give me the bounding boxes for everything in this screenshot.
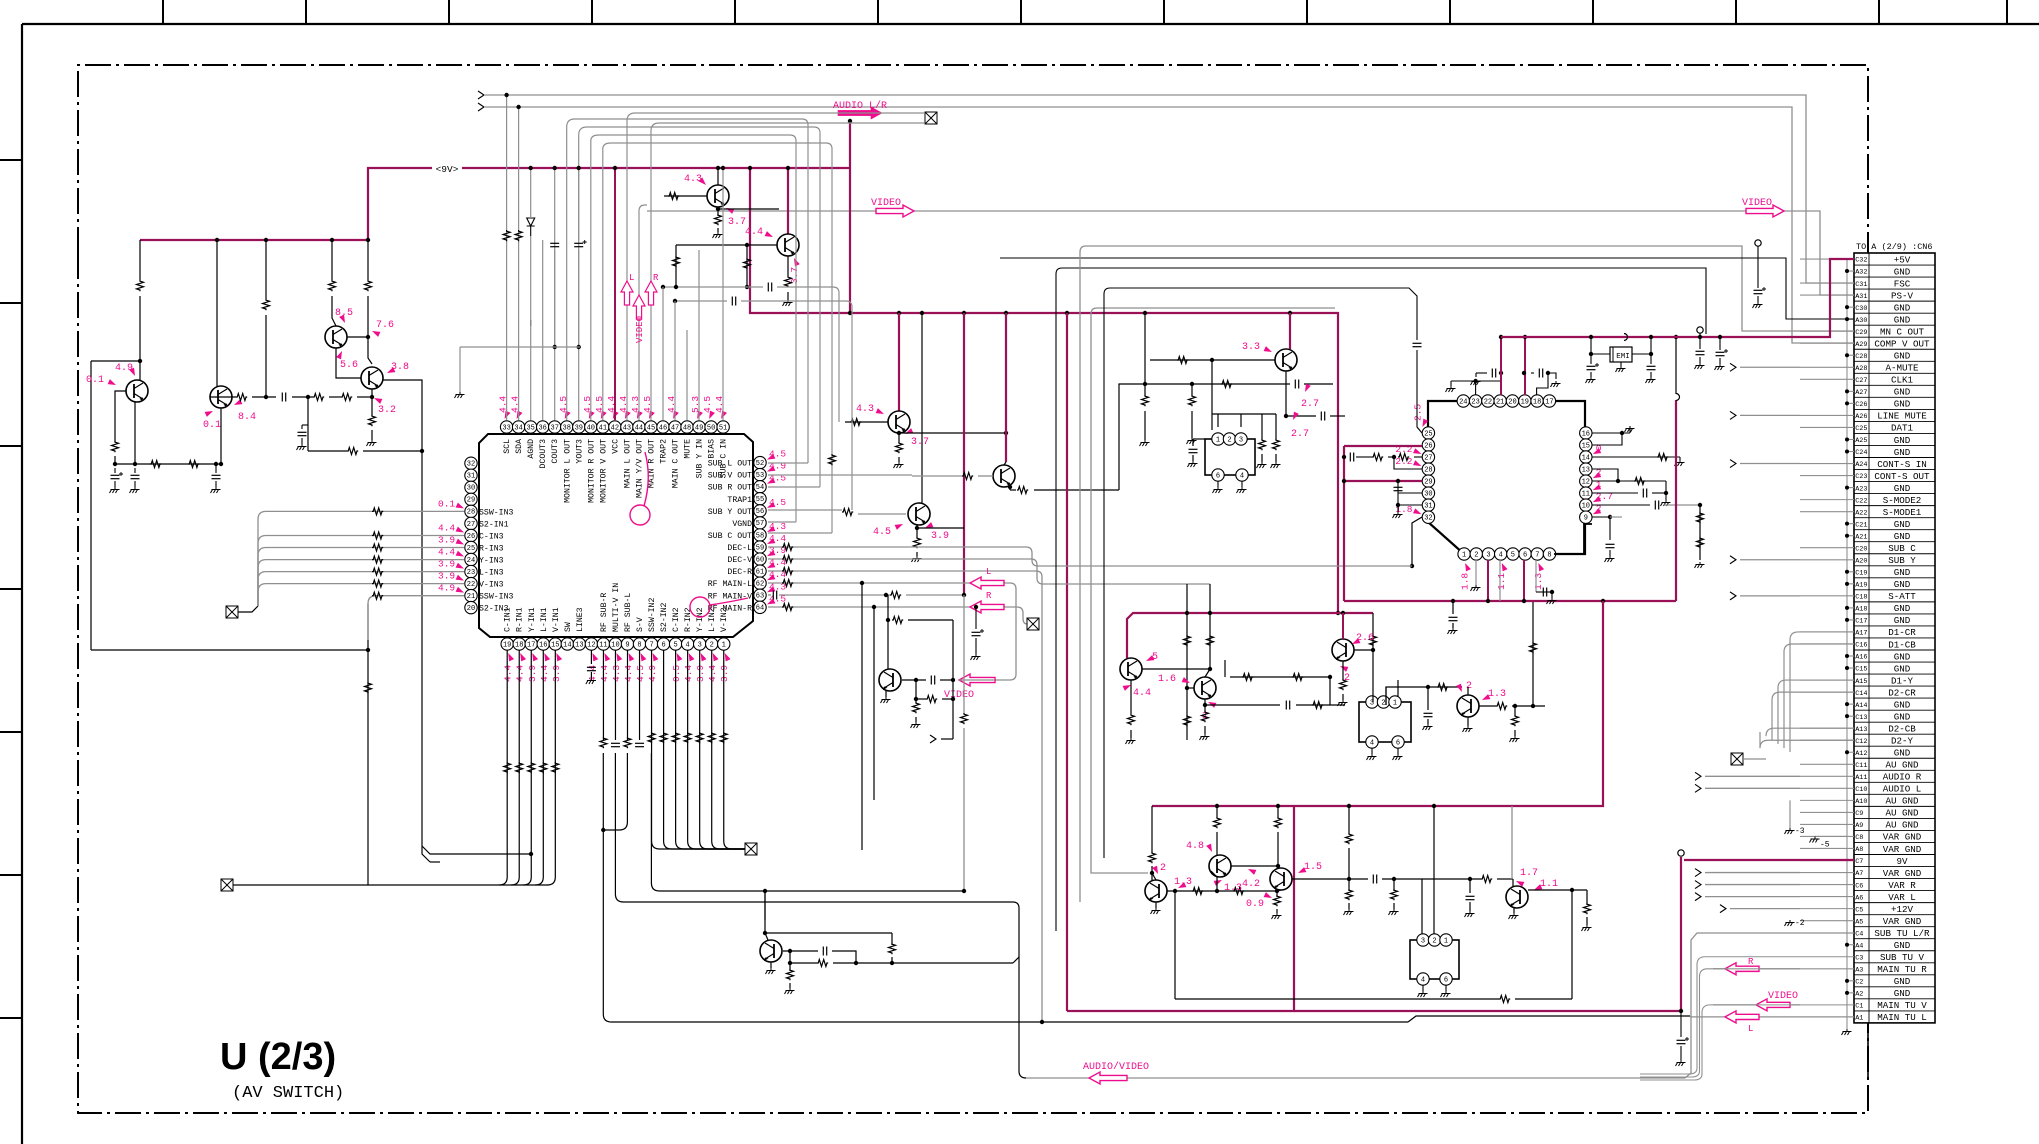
svg-text:COMP V OUT: COMP V OUT: [1874, 339, 1930, 350]
svg-text:16: 16: [539, 641, 547, 649]
Q20 emitter gnd: [885, 691, 887, 697]
input line to IC1 left pin: [258, 536, 464, 607]
connector CN6 signal stubs: [1800, 258, 1854, 260]
svg-text:C12: C12: [1855, 738, 1867, 746]
svg-text:37: 37: [551, 424, 559, 432]
IC1 bottom pins 19-1: [501, 638, 513, 650]
svg-text:Y-IN3: Y-IN3: [479, 557, 504, 566]
svg-text:C15: C15: [1855, 666, 1867, 674]
svg-text:C22: C22: [1855, 497, 1867, 505]
Q2 voltage 0.1: [205, 409, 215, 417]
audio rows chevrons: [1705, 775, 1800, 777]
bottom pin wire 10: [614, 650, 616, 740]
svg-text:A15: A15: [1855, 678, 1867, 686]
svg-text:VAR R: VAR R: [1888, 880, 1916, 891]
svg-text:R-IN2: R-IN2: [684, 607, 693, 632]
lower-left routing: [91, 649, 368, 651]
Q10 wiring: [1150, 359, 1275, 361]
svg-text:D1-CR: D1-CR: [1888, 627, 1916, 638]
svg-text:S-MODE2: S-MODE2: [1883, 495, 1922, 506]
svg-text:C31: C31: [1855, 281, 1867, 289]
svg-text:41: 41: [599, 424, 607, 432]
network cap 2: [131, 474, 140, 476]
svg-text:A20: A20: [1855, 557, 1867, 565]
input line to IC1 left pin: [258, 560, 464, 606]
monitor out lines curving right: [567, 119, 808, 463]
svg-text:VAR L: VAR L: [1888, 892, 1916, 903]
svg-text:11: 11: [1582, 490, 1590, 498]
module DL1 body: [1205, 439, 1255, 475]
Q2 voltage 8.4: [233, 399, 243, 407]
H687 to Q14: [1386, 687, 1462, 705]
svg-text:C30: C30: [1855, 305, 1867, 313]
VIDEO arrow mid2: [959, 679, 995, 681]
svg-text:25: 25: [467, 545, 475, 553]
IC IC2 body: [1428, 401, 1585, 554]
open circle node: [1697, 327, 1703, 333]
Q12 voltage 1: [1207, 700, 1217, 708]
maroon drop to Q6: [787, 168, 789, 234]
Q3 voltage 5.6: [336, 350, 344, 360]
maroon H806 left extension: [1152, 805, 1294, 807]
svg-text:VCC: VCC: [611, 439, 620, 454]
svg-text:3.9: 3.9: [551, 665, 562, 682]
svg-text:4.4: 4.4: [683, 665, 694, 682]
gray line H308: [1097, 307, 1335, 309]
Q9 wiring: [1004, 462, 1006, 465]
svg-text:R-IN3: R-IN3: [479, 545, 504, 554]
transistor Q17: [760, 940, 782, 962]
rail drop x368: [367, 240, 369, 280]
svg-text:19: 19: [1521, 398, 1529, 406]
svg-text:C20: C20: [1855, 545, 1867, 553]
transistor Q5: [707, 185, 729, 207]
input fan from terminal X2: [226, 606, 238, 618]
Q19 voltage 1.7: [1515, 879, 1525, 887]
svg-text:C11: C11: [1855, 762, 1867, 770]
V1349 divider: [1348, 806, 1350, 834]
Q1 voltage 0.1: [108, 379, 118, 387]
svg-text:AU GND: AU GND: [1885, 808, 1919, 819]
bottom pin wire to X 6: [664, 650, 745, 849]
svg-text:C26: C26: [1855, 401, 1867, 409]
svg-text:A16: A16: [1855, 654, 1867, 662]
svg-text:R: R: [1748, 957, 1754, 967]
svg-text:A18: A18: [1855, 606, 1867, 614]
below connector ground: [1867, 1023, 1869, 1080]
svg-text:4.9: 4.9: [647, 665, 658, 682]
svg-text:50: 50: [707, 424, 715, 432]
bottom pin wire to X 4: [688, 650, 745, 849]
svg-text:21: 21: [467, 593, 475, 601]
IC2 bottom pins 1-8: [1458, 548, 1470, 560]
svg-text:6: 6: [1523, 551, 1527, 559]
main R out line to audio X: [651, 123, 924, 420]
svg-text:20: 20: [1508, 398, 1516, 406]
Q16c voltage 1.5: [1297, 867, 1307, 875]
svg-text:-2: -2: [1795, 919, 1805, 928]
svg-text:35: 35: [526, 424, 534, 432]
rail drop resistor to Q1: [139, 240, 141, 280]
bottom pin wire 9: [627, 650, 629, 740]
pin11 long drop: [603, 753, 1408, 1022]
Q16b voltage 1.3: [1214, 878, 1224, 886]
svg-text:S2-IN1: S2-IN1: [479, 520, 509, 529]
svg-text:VIDEO: VIDEO: [635, 316, 645, 343]
svg-text:A28: A28: [1855, 365, 1867, 373]
svg-text:A10: A10: [1855, 798, 1867, 806]
svg-text:GND: GND: [1894, 567, 1911, 578]
svg-text:MAIN L OUT: MAIN L OUT: [623, 439, 632, 488]
svg-text:1.1: 1.1: [1496, 573, 1507, 590]
svg-text:RF SUB-L: RF SUB-L: [624, 593, 633, 632]
svg-text:D2-Y: D2-Y: [1891, 736, 1914, 747]
module DL3 ground pin6: [1445, 985, 1447, 991]
svg-text:SUB Y: SUB Y: [1888, 555, 1916, 566]
Q5 wiring: [664, 195, 707, 197]
svg-text:4.4: 4.4: [438, 522, 455, 533]
Q12 voltage 1.6: [1182, 677, 1192, 685]
transistor Q1: [126, 380, 148, 402]
svg-text:MAIN TU V: MAIN TU V: [1877, 1000, 1927, 1011]
svg-text:15: 15: [551, 641, 559, 649]
svg-text:1.7: 1.7: [1520, 868, 1538, 879]
Q14 wiring: [1467, 687, 1469, 695]
cap at 1428: [1427, 687, 1429, 710]
maroon pin21/19 feeds: [1500, 337, 1502, 395]
V1210 leg: [1209, 584, 1211, 669]
bus drop Q5 area: [717, 168, 719, 185]
transistor Q19: [1506, 886, 1528, 908]
DL1 side resistors: [1261, 414, 1263, 440]
cap stub to gnd: [307, 397, 309, 451]
svg-text:1.8: 1.8: [1460, 573, 1471, 590]
svg-text:21: 21: [1496, 398, 1504, 406]
svg-text:GND: GND: [1894, 940, 1911, 951]
V874 drop from pin64 line: [873, 607, 875, 800]
IC1 left pins 32-20: [465, 457, 477, 469]
IC2 right pins 16-9: [1580, 427, 1592, 439]
transistor Q3: [325, 326, 347, 348]
+12V chevron: [1730, 908, 1800, 910]
svg-text:8: 8: [637, 641, 641, 649]
svg-text:22: 22: [1484, 398, 1492, 406]
svg-text:RF MAIN-V: RF MAIN-V: [708, 592, 752, 601]
svg-text:4.4: 4.4: [623, 665, 634, 682]
H384 resistor: [1221, 381, 1232, 388]
svg-text:MULTI-V IN: MULTI-V IN: [612, 583, 621, 632]
svg-text:4.4: 4.4: [503, 665, 514, 682]
pin56 wire to Q8: [768, 509, 842, 511]
diode on bundle: [527, 218, 535, 236]
svg-text:C19: C19: [1855, 569, 1867, 577]
transistor Q13: [1332, 639, 1354, 661]
feedback resistors upper: [1224, 660, 1226, 677]
transistor Q20: [879, 669, 901, 691]
svg-text:R-IN1: R-IN1: [516, 607, 525, 632]
svg-text:17: 17: [527, 641, 535, 649]
bottom pin long wire 15: [547, 650, 555, 885]
svg-text:5: 5: [1152, 652, 1158, 663]
input line to IC1 left pin: [258, 584, 464, 606]
svg-text:8.4: 8.4: [238, 412, 256, 423]
svg-text:1: 1: [1444, 937, 1448, 945]
svg-text:27: 27: [1424, 454, 1432, 462]
cap row pin19: [1522, 371, 1526, 375]
svg-text:GND: GND: [1894, 435, 1911, 446]
Q4 output to V422: [383, 380, 430, 862]
Q5 voltage 3.7: [725, 206, 735, 214]
emitter network H464: [115, 463, 221, 465]
svg-text:55: 55: [756, 496, 764, 504]
svg-text:4.4: 4.4: [539, 665, 550, 682]
svg-text:C8: C8: [1855, 834, 1863, 842]
collector row to V953: [892, 617, 903, 624]
svg-text:COUT3: COUT3: [551, 439, 560, 464]
Q11 wiring: [1142, 668, 1210, 670]
svg-text:4: 4: [1499, 551, 1503, 559]
connector long stubs with chevrons: [1740, 366, 1800, 368]
svg-text:MONITOR L OUT: MONITOR L OUT: [563, 439, 572, 503]
svg-text:0.1: 0.1: [86, 375, 104, 386]
VIDEO arrow main tu v: [1713, 1004, 1800, 1006]
voltage 4.2: [1247, 867, 1257, 875]
svg-text:4.5: 4.5: [769, 497, 786, 508]
pin12 cap gnd: [590, 650, 592, 664]
svg-text:1.1: 1.1: [1540, 879, 1558, 890]
terminal X audio: [925, 112, 937, 124]
svg-text:GND: GND: [1894, 988, 1911, 999]
DL3 pin2 feed: [1433, 806, 1435, 934]
svg-text:64: 64: [756, 605, 764, 613]
IC2 right pin wires: [1592, 432, 1630, 434]
svg-text:MUTE: MUTE: [684, 439, 693, 459]
Q19 voltage 1.1: [1533, 884, 1543, 892]
svg-text:9: 9: [625, 641, 629, 649]
svg-text:23: 23: [467, 569, 475, 577]
svg-text:56: 56: [756, 508, 764, 516]
svg-text:22: 22: [467, 581, 475, 589]
pin9 drop joins pin11: [603, 753, 627, 830]
module DL3 ground pin4: [1422, 985, 1424, 991]
svg-text:1.3: 1.3: [1224, 883, 1242, 894]
Q20 base line with cap: [902, 679, 926, 681]
svg-text:S-ATT: S-ATT: [1888, 591, 1916, 602]
leader circle RF MAIN-V: [690, 597, 710, 617]
svg-text:L: L: [1748, 1024, 1753, 1034]
svg-text:13: 13: [575, 641, 583, 649]
svg-text:A12: A12: [1855, 750, 1867, 758]
Q13 voltage 2.6: [1351, 638, 1361, 646]
svg-text:EMI: EMI: [1616, 353, 1630, 361]
svg-text:GND: GND: [1894, 748, 1911, 759]
V1470 cap leg: [1469, 879, 1471, 893]
maroon box left: [1343, 446, 1345, 601]
Q16c voltage 0.9: [1264, 892, 1274, 900]
bottom pin wire 11: [602, 650, 604, 740]
pin64 line with R arrow: [768, 606, 1017, 608]
9V label: [432, 162, 462, 173]
Q7 wiring: [845, 421, 888, 423]
transistor Q16c: [1270, 868, 1292, 890]
+5V maroon rail: [1501, 259, 1854, 337]
Q8 voltage 4.5: [895, 522, 905, 530]
DL1 top network: [1211, 414, 1213, 430]
cap legs 9V to gnd rail: [554, 168, 556, 240]
svg-text:LINE3: LINE3: [576, 607, 585, 632]
svg-text:A25: A25: [1855, 437, 1867, 445]
signal line A30: [1000, 258, 1854, 319]
transistor Q16a: [1145, 880, 1167, 902]
svg-text:42: 42: [611, 424, 619, 432]
svg-text:SUB TU V: SUB TU V: [1880, 952, 1925, 963]
bottom pin wire to X 3: [700, 650, 745, 849]
Q19 base from above: [1511, 806, 1513, 879]
Q13 voltage 2: [1339, 664, 1349, 672]
svg-text:L: L: [986, 567, 991, 577]
VCC maroon drop: [614, 168, 616, 420]
ruler tick marks left: [0, 159, 22, 161]
bottom pin wire to X 7: [652, 650, 745, 849]
transistor Q2: [210, 386, 232, 408]
maroon H601: [1344, 600, 1676, 602]
svg-text:CLK1: CLK1: [1891, 375, 1914, 386]
module DL2 ground pin4: [1371, 748, 1373, 754]
svg-text:A2: A2: [1855, 991, 1863, 999]
svg-text:S-V: S-V: [636, 617, 645, 632]
svg-text:1: 1: [1216, 436, 1220, 444]
svg-text:C28: C28: [1855, 353, 1867, 361]
cluster supply maroon H806 black left leg: [1091, 868, 1148, 873]
svg-text:GND: GND: [1894, 519, 1911, 530]
svg-text:TRAP1: TRAP1: [727, 496, 752, 505]
signal line to FSC: [478, 91, 484, 99]
base divider lower: [915, 680, 917, 699]
svg-text:GND: GND: [1894, 266, 1911, 277]
svg-text:2: 2: [1227, 436, 1231, 444]
collector feedback resistor: [765, 932, 892, 934]
svg-text:GND: GND: [1894, 399, 1911, 410]
svg-text:V-IN2: V-IN2: [720, 607, 729, 632]
right area cap x1758: [1755, 240, 1761, 246]
svg-text:6: 6: [661, 641, 665, 649]
svg-text:46: 46: [659, 424, 667, 432]
svg-text:4.2: 4.2: [1242, 879, 1260, 890]
module DL1 ground pin4: [1241, 481, 1243, 487]
svg-text:DEC-V: DEC-V: [727, 556, 752, 565]
svg-text:7: 7: [1535, 551, 1539, 559]
svg-text:1.3: 1.3: [1533, 573, 1544, 590]
electrolytic below 9V node: [1679, 1009, 1683, 1013]
gray bundle verticals: [1080, 246, 1086, 902]
svg-text:Y-IN2: Y-IN2: [696, 607, 705, 632]
gnd stub near pin35: [530, 320, 532, 326]
svg-text:GND: GND: [1894, 651, 1911, 662]
svg-text:17: 17: [1545, 398, 1553, 406]
module DL3 body: [1410, 940, 1459, 979]
svg-text:4.9: 4.9: [115, 363, 133, 374]
terminal X bottom: [745, 843, 757, 855]
maroon V1294 down: [1067, 806, 1294, 1011]
svg-text:GND: GND: [1894, 483, 1911, 494]
svg-text:3: 3: [698, 641, 702, 649]
svg-text:C29: C29: [1855, 329, 1867, 337]
svg-text:GND: GND: [1894, 699, 1911, 710]
svg-text:12: 12: [587, 641, 595, 649]
maroon right leg: [1675, 400, 1677, 601]
network cap 1: [111, 474, 120, 476]
D bus curving stubs: [1790, 632, 1854, 752]
svg-text:PS-V: PS-V: [1891, 290, 1914, 301]
svg-text:4.9: 4.9: [438, 583, 455, 594]
svg-text:4.3: 4.3: [856, 404, 874, 415]
maroon H613: [1127, 613, 1373, 658]
svg-text:C25: C25: [1855, 425, 1867, 433]
svg-text:GND: GND: [1894, 579, 1911, 590]
transistor Q11: [1120, 658, 1142, 680]
pin10 drop bend right: [615, 753, 1026, 1078]
svg-text:AUDIO R: AUDIO R: [1883, 772, 1922, 783]
svg-text:4.4: 4.4: [438, 547, 455, 558]
svg-text:GND: GND: [1894, 351, 1911, 362]
Q4 voltage 3.2: [373, 396, 383, 404]
svg-text:1.3: 1.3: [1488, 689, 1506, 700]
svg-text:3: 3: [1486, 551, 1490, 559]
terminal X mid: [1027, 618, 1039, 630]
svg-text:25: 25: [1424, 430, 1432, 438]
svg-text:SUB Y IN: SUB Y IN: [696, 439, 705, 478]
svg-text:52: 52: [756, 460, 764, 468]
input line to IC1 left pin: [258, 511, 464, 606]
Q3 voltage 7.6: [371, 329, 381, 337]
Q16a voltage 1.3: [1177, 882, 1187, 890]
svg-text:SSW-IN3: SSW-IN3: [479, 508, 513, 517]
svg-text:SUB C OUT: SUB C OUT: [708, 532, 752, 541]
svg-text:53: 53: [756, 472, 764, 480]
bottom pin wire to X 5: [676, 650, 745, 849]
pin60 long line: [768, 558, 1031, 560]
svg-text:MONITOR V OUT: MONITOR V OUT: [599, 439, 608, 503]
svg-text:49: 49: [695, 424, 703, 432]
Q8 voltage 3.9: [924, 522, 934, 530]
svg-text:DEC-L: DEC-L: [727, 544, 752, 553]
IC2 top pin wires: [1475, 381, 1477, 395]
IC1 right pins 52-64: [754, 456, 766, 468]
svg-text:2: 2: [1432, 937, 1436, 945]
svg-text:DEC-R: DEC-R: [727, 568, 752, 577]
svg-text:DCOUT3: DCOUT3: [539, 439, 548, 469]
H879 output line: [1292, 878, 1368, 880]
maroon V1603 S-bend: [1294, 601, 1603, 806]
page border: [22, 23, 2039, 25]
maroon pin26 wire: [1344, 445, 1422, 447]
Q11 voltage 4.4: [1123, 683, 1133, 691]
svg-text:39: 39: [575, 424, 583, 432]
Q1 emitter leg: [134, 402, 136, 464]
svg-text:9: 9: [1584, 515, 1588, 523]
svg-text:C9: C9: [1855, 810, 1863, 818]
svg-text:30: 30: [467, 485, 475, 493]
svg-text:2.7: 2.7: [1301, 399, 1319, 410]
svg-text:8: 8: [1547, 551, 1551, 559]
svg-text:C3: C3: [1855, 954, 1863, 962]
svg-text:SCL: SCL: [503, 439, 512, 454]
pin62 line with L arrow: [768, 582, 1010, 584]
pin30/31 caps: [1397, 481, 1399, 505]
9V rail top-left: [140, 168, 850, 240]
svg-text:Y-IN1: Y-IN1: [528, 607, 537, 632]
svg-text:3.7: 3.7: [911, 437, 929, 448]
